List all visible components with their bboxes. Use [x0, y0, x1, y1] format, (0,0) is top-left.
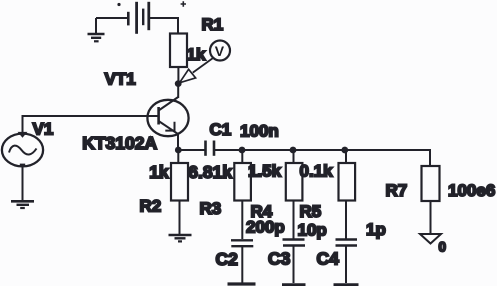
ground bar (C4)	[334, 283, 359, 286]
svg-text:R3: R3	[200, 199, 222, 218]
voltmeter probe V	[180, 41, 231, 83]
svg-text:R1: R1	[202, 15, 224, 34]
ground (V1)	[11, 201, 34, 208]
node R3 top	[239, 147, 246, 154]
ground (battery)	[88, 18, 105, 41]
wire node to C1	[178, 149, 204, 151]
svg-text:100e6: 100e6	[448, 181, 495, 200]
source V1	[2, 132, 43, 166]
capacitor C2	[231, 240, 253, 246]
wire R5 to C4	[345, 201, 347, 240]
svg-text:1.5k: 1.5k	[248, 162, 282, 181]
resistor R1	[170, 34, 187, 68]
wire emitter to bus node	[177, 147, 179, 150]
svg-text:1k: 1k	[149, 162, 169, 182]
wire V1 to ground	[22, 167, 24, 202]
node (emitter/bus)	[175, 147, 182, 154]
battery B1	[96, 1, 186, 34]
wire C3 down	[293, 246, 295, 283]
svg-text:V1: V1	[33, 120, 54, 139]
wire R2 to ground	[179, 201, 181, 235]
svg-text:KT3102A: KT3102A	[82, 133, 157, 153]
svg-text:10p: 10p	[298, 221, 327, 240]
wire C2 down	[241, 247, 243, 283]
svg-text:C3: C3	[268, 249, 291, 269]
wire node to collector	[177, 86, 179, 98]
svg-text:R7: R7	[386, 181, 408, 200]
resistor R3	[234, 163, 251, 201]
svg-text:0.1k: 0.1k	[300, 162, 334, 181]
wire R1 to node	[177, 67, 179, 81]
capacitor C4	[336, 240, 358, 246]
resistor R5	[339, 163, 356, 201]
capacitor C1	[206, 141, 215, 156]
wire R7 to ground	[430, 201, 432, 234]
wire V1 to base	[23, 116, 159, 134]
svg-text:1p: 1p	[366, 220, 386, 239]
node R5 top	[341, 147, 348, 154]
resistor R7	[422, 166, 440, 201]
wire node to R3	[241, 150, 243, 163]
wire node to R4	[293, 150, 295, 163]
node (collector)	[175, 80, 182, 87]
capacitor C3	[283, 240, 306, 246]
svg-text:100n: 100n	[240, 122, 279, 141]
transistor VT1	[147, 97, 188, 147]
svg-text:C2: C2	[216, 249, 239, 269]
wire C4 down	[345, 246, 347, 283]
svg-text:R2: R2	[140, 197, 162, 216]
ground 0 (triangle)	[420, 234, 441, 244]
wire node to R5	[345, 150, 347, 163]
wire bus C1 to R7	[214, 150, 430, 166]
svg-text:VT1: VT1	[105, 70, 136, 89]
svg-text:R4: R4	[251, 202, 273, 221]
svg-text:V: V	[215, 43, 225, 59]
svg-text:C4: C4	[317, 249, 340, 269]
ground bar (C3)	[282, 283, 306, 286]
resistor R4	[286, 163, 303, 201]
svg-text:6.81k: 6.81k	[188, 162, 232, 182]
svg-text:R5: R5	[300, 202, 322, 221]
wire node to R2	[177, 150, 179, 163]
ground bar (C2)	[228, 282, 256, 285]
svg-text:1k: 1k	[187, 45, 206, 64]
node R4 top	[290, 147, 297, 154]
wire R3 to C2	[241, 201, 243, 240]
wire R4 to C3	[293, 201, 295, 240]
svg-text:C1: C1	[210, 120, 232, 139]
svg-text:0: 0	[439, 240, 447, 255]
resistor R2	[171, 163, 188, 201]
ground (R2)	[169, 235, 192, 241]
